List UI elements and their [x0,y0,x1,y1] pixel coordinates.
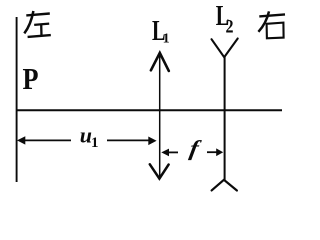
label P [23,61,39,96]
label you (hand-drawn CJK "right") [258,11,285,38]
label zuo (hand-drawn CJK "left") [24,11,51,37]
svg-text:f: f [188,136,204,161]
dimension u1 (double arrow from P to L1) [17,136,157,145]
label f [188,136,204,161]
label u1 [80,123,99,152]
label L1 [152,16,170,47]
svg-text:2: 2 [226,16,234,37]
object plane P vertical line [16,17,18,182]
dimension f (double arrow from L1 to L2) [161,148,223,156]
svg-text:P: P [23,61,39,96]
lens L2 (diverging, inverted arrows) [212,39,238,191]
lens L1 (converging, double arrow) [150,53,169,179]
label L2 [216,1,234,37]
optical axis [16,109,282,111]
svg-text:1: 1 [163,31,170,46]
svg-text:1: 1 [91,135,99,151]
